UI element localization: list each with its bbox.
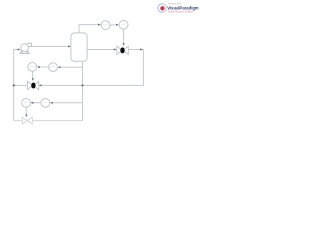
- vessel E1: [71, 33, 87, 61]
- instrument T1: [101, 21, 110, 30]
- instrument A: [28, 63, 37, 72]
- instrument T2: [119, 20, 128, 29]
- wire instrument D to instrument C: [32, 102, 41, 104]
- instrument C: [22, 99, 31, 108]
- instrument B: [49, 63, 58, 72]
- wire riser to vessel bottom: [82, 61, 84, 121]
- wire pump discharge to vessel: [31, 45, 69, 47]
- wire T2 down to valve V1: [123, 29, 125, 44]
- watermark logo: [158, 4, 166, 12]
- wire instrument C down to hand valve: [25, 107, 27, 116]
- instrument D: [41, 99, 50, 108]
- wire riser tap to instrument B: [59, 66, 83, 68]
- wire instrument A down to valve V2: [31, 71, 33, 79]
- wire vessel outlet to valve V1: [87, 49, 115, 51]
- watermark text: [167, 3, 199, 14]
- junction riser: [81, 84, 83, 86]
- svg-text:Online Express Edition: Online Express Edition: [168, 11, 194, 14]
- pump P1: [20, 43, 32, 53]
- wire pump inlet from left header: [14, 50, 20, 121]
- wire valve V1 outlet elbow down: [128, 50, 143, 86]
- wire instrument B to instrument A: [38, 66, 48, 68]
- wire riser tap to instrument D: [51, 102, 82, 104]
- wire bottom rail: [14, 120, 83, 122]
- control valve V1: [117, 46, 129, 54]
- wire valve V2 outlet to left header: [14, 84, 28, 86]
- wire T1 to T2: [110, 24, 118, 26]
- junction left header: [13, 84, 15, 86]
- hand valve HV1: [22, 117, 32, 124]
- control valve V2: [27, 81, 38, 89]
- wire return line to valve V2: [39, 84, 143, 86]
- wire vessel top to instrument T1: [79, 25, 100, 33]
